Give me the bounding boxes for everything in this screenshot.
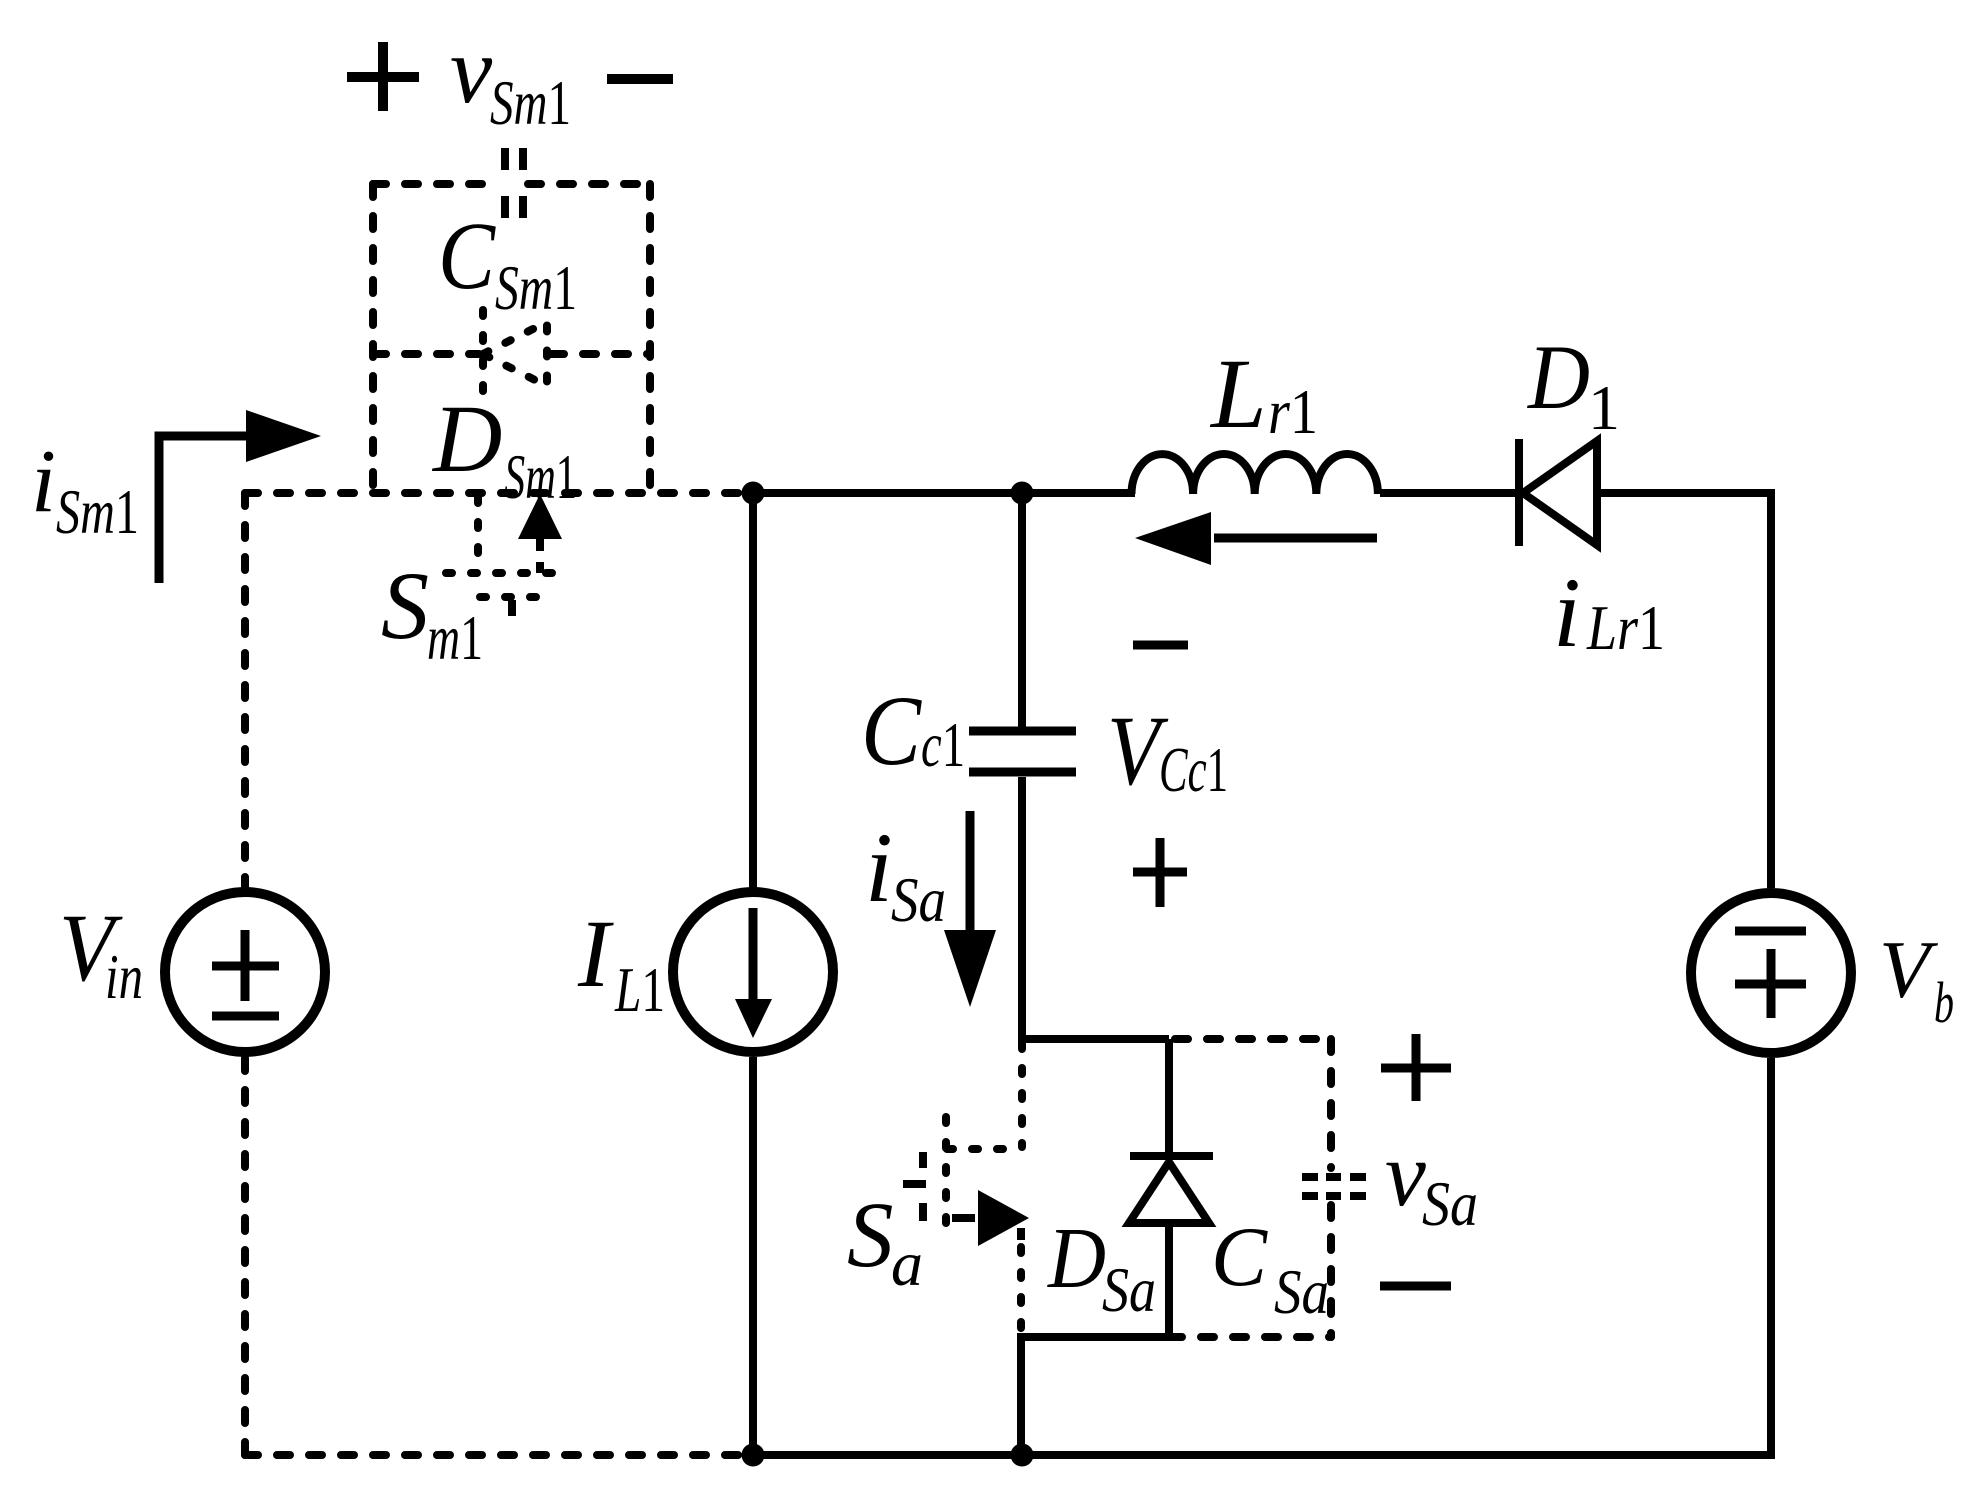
source IL1 circle [673, 892, 833, 1052]
node B top mid junction [1011, 482, 1034, 505]
arrow iLr1 [1214, 534, 1377, 543]
svg-text:i: i [865, 812, 893, 923]
svg-text:r1: r1 [1268, 376, 1318, 447]
label vSm1 plus [347, 42, 419, 111]
diode DSa [1130, 1152, 1213, 1160]
source Vin circle [165, 892, 325, 1052]
label vSm1 minus [607, 74, 673, 84]
wire IL1 branch [749, 493, 757, 1455]
svg-text:v: v [450, 17, 493, 123]
label VCc1 minus [1133, 641, 1188, 650]
label vSa plus [1381, 1034, 1451, 1101]
svg-text:m1: m1 [427, 602, 483, 673]
snubber box Sm1 dashed edges [373, 184, 650, 493]
arrow iSm1 [159, 436, 250, 583]
svg-text:Sa: Sa [891, 864, 946, 935]
svg-text:i: i [1553, 557, 1581, 668]
svg-text:Sa: Sa [1422, 1168, 1478, 1239]
svg-text:Sm1: Sm1 [495, 252, 577, 323]
svg-text:Lr1: Lr1 [1586, 592, 1665, 663]
svg-text:1: 1 [1588, 372, 1620, 443]
svg-text:D: D [431, 385, 502, 492]
svg-text:C: C [861, 675, 922, 786]
snubber box CSa dashed [1169, 1039, 1331, 1337]
svg-text:V: V [1879, 924, 1938, 1015]
svg-text:I: I [577, 900, 614, 1007]
svg-text:a: a [891, 1228, 923, 1299]
wire top rail solid [753, 493, 1771, 888]
svg-text:S: S [847, 1184, 894, 1287]
capacitor CSa plates dashed [1302, 1177, 1366, 1196]
diode D1 [1515, 439, 1523, 546]
svg-text:L: L [1209, 338, 1267, 449]
capacitor Cc1 plates [969, 731, 1076, 772]
wire Cc1 branch [1018, 493, 1169, 1043]
transistor Sm1 dashed switch [446, 497, 561, 597]
capacitor CSm1 plates [505, 148, 523, 218]
svg-text:v: v [1385, 1123, 1426, 1225]
svg-text:D: D [1526, 326, 1590, 428]
svg-text:S: S [381, 552, 429, 659]
svg-text:Sm1: Sm1 [504, 441, 577, 512]
node D bottom mid junction [1011, 1444, 1034, 1467]
svg-text:Cc1: Cc1 [1159, 734, 1228, 805]
inductor Lr1 [1132, 454, 1378, 494]
node C bottom left junction [742, 1444, 765, 1467]
svg-text:Sa: Sa [1274, 1256, 1329, 1327]
label vSa minus [1380, 1282, 1451, 1291]
arrow iSa [966, 811, 975, 933]
wire DSa branch [1021, 1039, 1169, 1455]
svg-text:C: C [438, 202, 496, 309]
svg-text:c1: c1 [921, 709, 965, 780]
svg-text:b: b [1934, 970, 1954, 1035]
svg-text:Sm1: Sm1 [490, 67, 571, 138]
label VCc1 plus [1133, 838, 1187, 907]
svg-text:i: i [31, 432, 56, 531]
wire left column dashed (Vin branch) [245, 493, 753, 1455]
svg-text:L1: L1 [614, 954, 665, 1025]
svg-text:Sa: Sa [1102, 1254, 1156, 1325]
wire Sa source dashed [1017, 1247, 1025, 1337]
transistor Sa dashed switch [946, 1043, 1022, 1237]
svg-text:C: C [1211, 1210, 1268, 1304]
source Vb circle [1691, 893, 1851, 1053]
wire bottom rail solid [753, 1058, 1771, 1455]
svg-text:D: D [1047, 1209, 1106, 1306]
svg-text:Sm1: Sm1 [56, 476, 139, 547]
diode DSm1 dashed [483, 310, 547, 393]
node A top left junction [742, 482, 765, 505]
svg-text:in: in [105, 941, 143, 1012]
wire top rail dashed left segment [245, 489, 753, 497]
